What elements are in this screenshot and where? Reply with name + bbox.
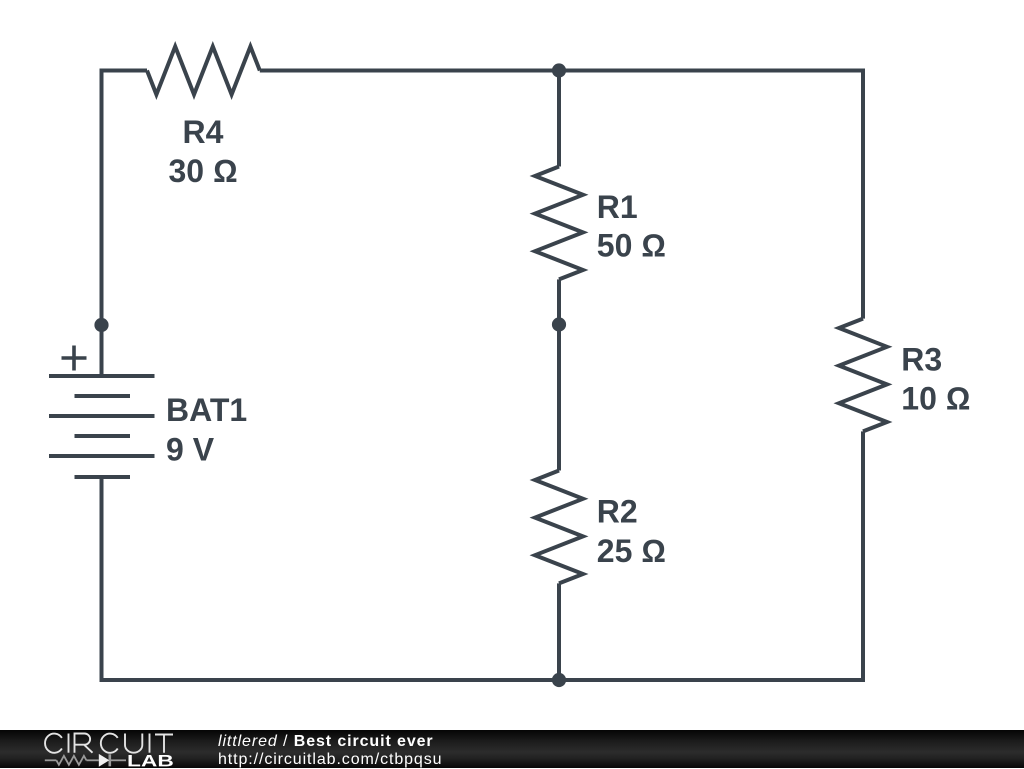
svg-text:9 V: 9 V	[166, 431, 215, 467]
logo diode triangle	[99, 753, 110, 766]
logo letter R	[75, 733, 93, 752]
wire bottom rail	[102, 678, 862, 682]
wire R2 to bottom rail	[557, 583, 561, 680]
CircuitLab logo	[0, 730, 200, 769]
node dot bottom middle	[552, 673, 566, 687]
svg-text:BAT1: BAT1	[166, 392, 247, 428]
logo resistor lead left	[45, 759, 57, 761]
resistor R3	[839, 319, 887, 432]
svg-text:R4: R4	[183, 114, 224, 150]
wire R1 to mid node	[557, 279, 561, 324]
wire right rail lower	[861, 431, 865, 682]
svg-text:50 Ω: 50 Ω	[597, 228, 666, 264]
wire left rail bottom (battery - to bottom-left corner)	[100, 477, 104, 682]
node dot middle (R1/R2 junction)	[552, 317, 566, 331]
svg-text:R1: R1	[597, 189, 638, 225]
wire left rail top (battery + to top-left corner)	[100, 71, 104, 377]
BAT1 plus polarity mark	[62, 346, 87, 371]
wire top rail right segment	[260, 69, 863, 73]
logo wire to diode	[86, 759, 98, 761]
wire right rail upper	[861, 69, 865, 319]
wire middle top (top rail to R1)	[557, 71, 561, 167]
logo letter C2	[101, 733, 118, 752]
BAT1 plate long 2	[49, 414, 155, 418]
wire mid node to R2	[557, 325, 561, 471]
node dot left (battery +)	[94, 318, 108, 332]
logo wire to LAB	[111, 759, 126, 761]
svg-text:R3: R3	[901, 341, 942, 377]
footer bar	[0, 730, 1024, 769]
svg-text:10 Ω: 10 Ω	[901, 381, 970, 417]
BAT1 plate short 3 (-)	[75, 475, 131, 479]
logo letter I1	[68, 733, 70, 752]
logo letter I2	[149, 733, 151, 752]
node dot top middle	[552, 63, 566, 77]
wire top rail left segment	[100, 69, 148, 73]
logo letter C1	[45, 733, 62, 752]
logo resistor zigzag	[56, 755, 86, 764]
logo diode bar	[109, 754, 112, 766]
BAT1 plate short 2	[75, 434, 131, 438]
credit text	[218, 733, 442, 769]
svg-text:R2: R2	[597, 494, 638, 530]
BAT1 plate long 3	[49, 454, 155, 458]
BAT1 plate short 1	[75, 394, 131, 398]
resistor R4	[147, 47, 260, 95]
battery BAT1	[49, 376, 155, 477]
logo letter U	[125, 733, 142, 752]
logo LAB text	[129, 754, 173, 765]
logo letter T	[155, 734, 173, 752]
svg-text:30 Ω: 30 Ω	[168, 153, 237, 189]
resistor R1	[535, 167, 583, 280]
resistor R2	[535, 471, 583, 584]
BAT1 plate long 1 (+)	[49, 374, 155, 378]
svg-text:25 Ω: 25 Ω	[597, 533, 666, 569]
